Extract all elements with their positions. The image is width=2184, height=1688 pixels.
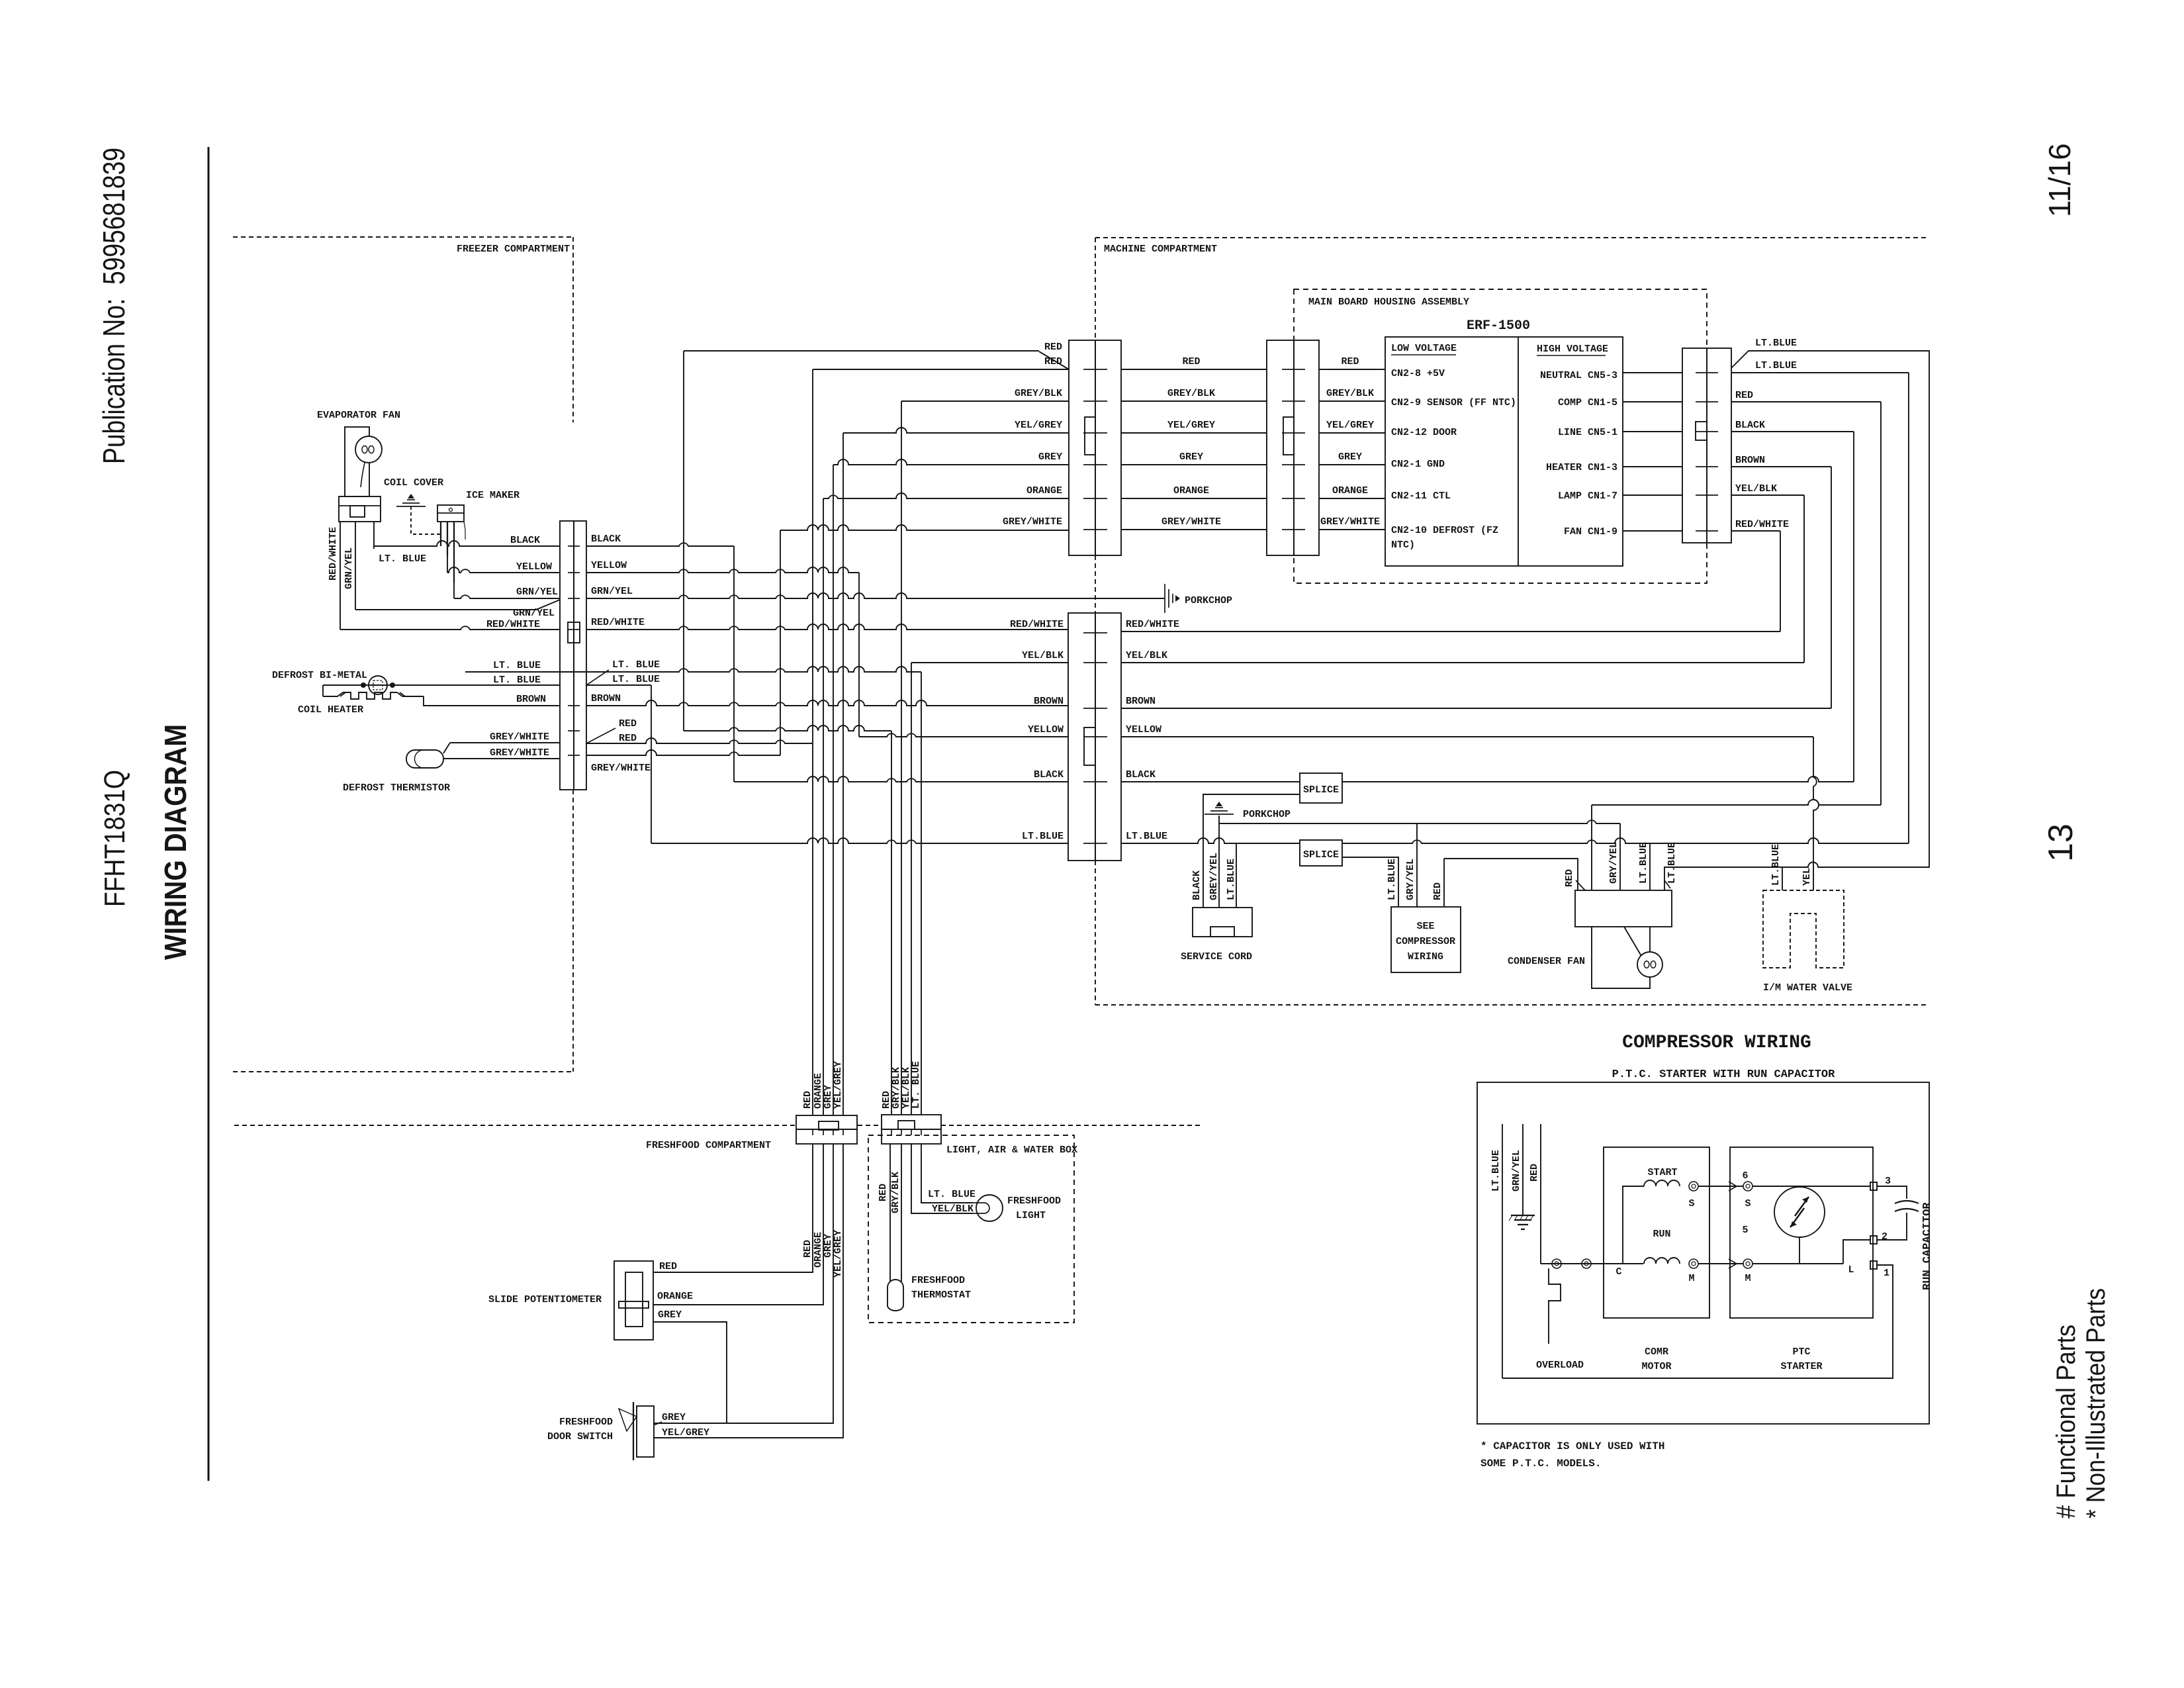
- label PTC STARTER: [1780, 1346, 1822, 1372]
- svg-text:SPLICE: SPLICE: [1303, 784, 1339, 796]
- wire ORANGE connector B to C: [1121, 498, 1267, 499]
- label GREY C-board: [1338, 451, 1362, 463]
- label GREY B-C: [1179, 451, 1203, 463]
- label LT.BLUE nest a: [1755, 338, 1797, 349]
- svg-text:OVERLOAD: OVERLOAD: [1536, 1360, 1584, 1371]
- compressor wiring outer box: [1477, 1082, 1929, 1424]
- svg-text:GRN/YEL: GRN/YEL: [516, 586, 558, 598]
- svg-text:RED/WHITE: RED/WHITE: [486, 619, 540, 630]
- label bundle2 GRY/BLK (rot): [891, 1067, 902, 1109]
- wire bi-metal left drop: [322, 685, 324, 696]
- subtitle PTC STARTER WITH RUN CAPACITOR: [1612, 1068, 1835, 1081]
- label S ptc: [1745, 1198, 1751, 1209]
- svg-text:LINE CN5-1: LINE CN5-1: [1558, 427, 1617, 438]
- wire GREY connector C to board: [1319, 464, 1385, 465]
- svg-text:FREEZER COMPARTMENT: FREEZER COMPARTMENT: [457, 244, 570, 255]
- wire LT. BLUE ice maker row: [465, 671, 560, 673]
- wire GRN/YEL row to porkchop: [586, 593, 1164, 598]
- connector F1 freshfood bundle-1 feed-through: [796, 1115, 857, 1144]
- wire RED thermostat drop: [889, 1144, 891, 1282]
- wire GRY/BLK bundle2 vertical: [901, 401, 902, 1115]
- svg-text:ORANGE: ORANGE: [1332, 485, 1368, 496]
- wire ORANGE connector C to board: [1319, 498, 1385, 499]
- label RED thermo (rot): [878, 1184, 889, 1201]
- svg-text:RED: RED: [1182, 356, 1200, 367]
- label YELLOW E right: [1126, 724, 1161, 735]
- svg-text:# Functional Parts: # Functional Parts: [2052, 1325, 2081, 1519]
- machine compartment top border: [1095, 237, 1929, 238]
- wire RED/WHITE fan to connector A: [340, 626, 560, 630]
- svg-text:1: 1: [1884, 1268, 1889, 1279]
- wire YEL/GREY connector B to C: [1121, 432, 1267, 434]
- svg-text:BROWN: BROWN: [1034, 696, 1064, 707]
- svg-text:YEL/BLK: YEL/BLK: [932, 1203, 974, 1215]
- label YELLOW E left: [1028, 724, 1064, 735]
- comr motor box: [1604, 1147, 1709, 1318]
- svg-text:LOW VOLTAGE: LOW VOLTAGE: [1391, 343, 1457, 354]
- wire LT.BLUE bundle2 vertical: [921, 672, 922, 1115]
- svg-text:3: 3: [1885, 1176, 1891, 1187]
- label FRESHFOOD DOOR SWITCH: [547, 1417, 613, 1442]
- freezer compartment top border: [233, 236, 573, 238]
- ptc pin 1 square: [1870, 1261, 1877, 1269]
- wire YEL/GREY below connector F1: [653, 1144, 843, 1438]
- label RUN: [1653, 1229, 1670, 1240]
- wire RED(2) connector A to trunk: [586, 738, 813, 743]
- machine compartment left wall seg2: [1095, 555, 1096, 613]
- label bundle1 RED (rot): [802, 1091, 813, 1109]
- label MAIN BOARD HOUSING ASSEMBLY: [1308, 297, 1469, 308]
- svg-text:RUN: RUN: [1653, 1229, 1670, 1240]
- label cw GRN/YEL (rot): [1511, 1150, 1522, 1192]
- wire BLACK splice1 to board drop: [1342, 776, 1854, 782]
- label GRN/YEL (rotated): [343, 547, 355, 589]
- svg-text:PTC: PTC: [1792, 1346, 1810, 1358]
- label EVAPORATOR FAN: [317, 410, 400, 421]
- svg-text:GREY/WHITE: GREY/WHITE: [1003, 516, 1062, 528]
- wire GRN/YEL a to connector A: [454, 583, 560, 598]
- svg-text:YEL/GREY: YEL/GREY: [1326, 420, 1374, 431]
- wire YEL/BLK nest: [1731, 495, 1804, 663]
- connector F2 freshfood bundle-2 feed-through: [882, 1115, 941, 1144]
- label seecomp LT.BLUE (rot): [1387, 859, 1398, 900]
- wire RED trunk below connector F1: [653, 1144, 813, 1272]
- svg-text:COIL COVER: COIL COVER: [384, 477, 443, 489]
- pin label COMP CN1-5: [1558, 397, 1617, 408]
- machine compartment left wall seg1: [1095, 238, 1096, 340]
- wire BLACK nest: [1731, 432, 1854, 782]
- svg-text:HIGH VOLTAGE: HIGH VOLTAGE: [1537, 344, 1608, 355]
- start terminal S: [1689, 1182, 1698, 1191]
- label pot RED: [659, 1261, 677, 1272]
- wire LT.BLUE connector E to splice2: [1121, 838, 1300, 843]
- label LT. BLUE fan wire: [379, 553, 426, 565]
- pin label CN2-8 +5V: [1391, 368, 1445, 379]
- label RED/WHITE E right: [1126, 619, 1179, 630]
- label fan RED (rot): [1564, 869, 1585, 890]
- svg-text:GREY: GREY: [1338, 451, 1362, 463]
- connector D board high-voltage feed-through: [1682, 348, 1731, 543]
- label seecomp RED (rot): [1432, 882, 1443, 900]
- svg-text:GREY: GREY: [658, 1309, 682, 1321]
- wire RED trunk vertical: [812, 369, 813, 1115]
- ptc pin 3 square: [1870, 1182, 1877, 1190]
- label GREY/WHITE left of B: [1003, 516, 1062, 528]
- wire start coil left drop: [1623, 1186, 1644, 1264]
- label YEL/BLK nest: [1735, 483, 1777, 494]
- label COIL HEATER: [298, 704, 363, 716]
- label ERF-1500: [1467, 318, 1530, 334]
- svg-text:L: L: [1848, 1264, 1854, 1276]
- coil cover ground symbol: [396, 494, 426, 506]
- ice maker module: [437, 505, 464, 522]
- label OVERLOAD: [1536, 1360, 1584, 1371]
- ptc starter box: [1730, 1147, 1873, 1318]
- svg-text:RED: RED: [1044, 342, 1062, 353]
- pin label CN2-11 CTL: [1391, 491, 1451, 502]
- wire GRY/BLK thermostat drop: [901, 1144, 902, 1282]
- label START: [1647, 1167, 1677, 1178]
- label fan LT.BLUE1 (rot): [1638, 842, 1649, 884]
- freezer compartment right wall lower: [572, 790, 574, 1072]
- label 6: [1742, 1170, 1748, 1182]
- label RED/WHITE right: [591, 617, 645, 628]
- wire LT.BLUE nest a: [1664, 351, 1929, 890]
- svg-text:RED/WHITE: RED/WHITE: [328, 527, 339, 581]
- svg-text:SOME P.T.C. MODELS.: SOME P.T.C. MODELS.: [1480, 1458, 1601, 1470]
- svg-text:GRN/YEL: GRN/YEL: [1511, 1150, 1522, 1192]
- label ORANGE B-C: [1173, 485, 1209, 496]
- label GREY/WHITE left b: [490, 747, 549, 759]
- svg-text:YEL: YEL: [1801, 868, 1813, 886]
- label BROWN right: [591, 693, 621, 704]
- label page 13 (rotated): [2042, 823, 2080, 862]
- svg-text:BLACK: BLACK: [591, 534, 621, 545]
- svg-text:BLACK: BLACK: [1126, 769, 1156, 780]
- svg-text:DEFROST BI-METAL: DEFROST BI-METAL: [272, 670, 367, 681]
- svg-text:CN2-10 DEFROST (FZ: CN2-10 DEFROST (FZ: [1391, 525, 1498, 536]
- wire YEL/BLK row to connector E: [911, 662, 1068, 663]
- svg-text:RED: RED: [619, 718, 637, 729]
- svg-text:BROWN: BROWN: [591, 693, 621, 704]
- svg-text:LT. BLUE: LT. BLUE: [911, 1061, 922, 1109]
- wire BROWN nest: [1731, 467, 1831, 708]
- wire fan RED drop: [1591, 805, 1592, 890]
- svg-text:GRY/YEL: GRY/YEL: [1608, 842, 1619, 884]
- svg-text:I/M WATER VALVE: I/M WATER VALVE: [1763, 982, 1852, 994]
- border rule left sidebar: [207, 147, 209, 1481]
- freezer compartment right wall upper: [572, 237, 574, 422]
- svg-text:YEL/GREY: YEL/GREY: [1167, 420, 1215, 431]
- wire RED(b) upper drop: [683, 351, 684, 731]
- coil cover ground stem: [411, 506, 441, 534]
- label BLACK nest: [1735, 420, 1765, 431]
- label I/M WATER VALVE: [1763, 982, 1852, 994]
- footnote capacitor line1: [1480, 1440, 1664, 1452]
- svg-text:START: START: [1647, 1167, 1677, 1178]
- svg-text:* Non-Illustrated Parts: * Non-Illustrated Parts: [2081, 1288, 2111, 1519]
- wire YEL/BLK light drop: [911, 1144, 973, 1213]
- coil heater element: [323, 692, 424, 699]
- label SPLICE 2: [1303, 849, 1339, 861]
- wire RED connector C to board: [1319, 369, 1385, 370]
- main board housing assembly dashed box: [1294, 289, 1707, 583]
- svg-text:* CAPACITOR IS ONLY USED WITH: * CAPACITOR IS ONLY USED WITH: [1480, 1440, 1664, 1452]
- label service BLACK (rot): [1191, 870, 1203, 900]
- wire LT.BLUE(2) row to connector E: [651, 838, 1068, 843]
- wire YEL/BLK connector E to nest: [1121, 662, 1804, 663]
- svg-text:P.T.C. STARTER WITH RUN CAPACI: P.T.C. STARTER WITH RUN CAPACITOR: [1612, 1068, 1835, 1081]
- svg-text:RUN CAPACITOR: RUN CAPACITOR: [1921, 1202, 1934, 1290]
- svg-text:ORANGE: ORANGE: [1173, 485, 1209, 496]
- label YEL/GREY C-board: [1326, 420, 1374, 431]
- wire BROWN row connector A to E: [586, 700, 1068, 706]
- label GREY/WHITE right: [591, 763, 651, 774]
- wire GREY elbow to connector B: [833, 459, 1069, 465]
- svg-text:LT.BLUE: LT.BLUE: [1666, 842, 1678, 884]
- header HIGH VOLTAGE: [1537, 344, 1608, 355]
- svg-text:LIGHT: LIGHT: [1016, 1210, 1046, 1221]
- svg-text:LT.BLUE: LT.BLUE: [1638, 842, 1649, 884]
- label GREY/WHITE left a: [490, 731, 549, 743]
- evaporator fan motor: [355, 436, 382, 487]
- svg-text:MAIN BOARD HOUSING ASSEMBLY: MAIN BOARD HOUSING ASSEMBLY: [1308, 297, 1469, 308]
- svg-text:COIL HEATER: COIL HEATER: [298, 704, 363, 716]
- label PORKCHOP 1: [1185, 595, 1232, 606]
- svg-text:5: 5: [1742, 1225, 1748, 1236]
- label pot GREY: [658, 1309, 682, 1321]
- svg-text:THERMOSTAT: THERMOSTAT: [911, 1289, 971, 1301]
- wire overload run line: [1541, 1259, 1643, 1268]
- label FRESHFOOD COMPARTMENT: [646, 1140, 771, 1151]
- wire fan LT.BLUE1 drop: [1649, 843, 1651, 890]
- header LOW VOLTAGE: [1391, 343, 1457, 355]
- wire valve YEL: [1813, 737, 1819, 890]
- label RED/WHITE E left: [1010, 619, 1064, 630]
- wire RED bundle2 vertical: [891, 731, 892, 1115]
- wire RED/WHITE evaporator fan drop: [340, 522, 341, 630]
- svg-text:GREY/YEL: GREY/YEL: [1208, 853, 1220, 900]
- svg-text:CONDENSER FAN: CONDENSER FAN: [1508, 956, 1585, 967]
- svg-text:GRY/YEL: GRY/YEL: [1405, 859, 1416, 900]
- wire GREY below connector F1: [653, 1144, 833, 1423]
- label GREY/BLK left of B: [1015, 388, 1062, 399]
- splice 1 box: [1300, 773, 1342, 803]
- label RED/WHITE (rotated): [328, 527, 339, 581]
- svg-text:LT.BLUE: LT.BLUE: [1755, 338, 1797, 349]
- label LT. BLUE left b: [493, 675, 541, 686]
- svg-text:LT. BLUE: LT. BLUE: [493, 660, 541, 671]
- label bundle2 LT. BLUE (rot): [911, 1061, 922, 1109]
- connector B machine wall feed-through: [1069, 340, 1121, 555]
- wire GRN/YEL b fan to connector A: [355, 600, 560, 610]
- wire ORANGE below connector F1: [653, 1144, 823, 1305]
- label LT. BLUE right a: [612, 659, 660, 671]
- svg-text:LAMP CN1-7: LAMP CN1-7: [1558, 491, 1617, 502]
- svg-text:YEL/GREY: YEL/GREY: [1015, 420, 1062, 431]
- svg-text:BLACK: BLACK: [1191, 870, 1203, 900]
- svg-text:LT.BLUE: LT.BLUE: [1226, 859, 1237, 900]
- svg-text:BLACK: BLACK: [510, 535, 540, 546]
- footnote capacitor line2: [1480, 1458, 1601, 1470]
- svg-text:FFHT1831Q: FFHT1831Q: [99, 770, 131, 907]
- label valve YEL (rot): [1801, 868, 1813, 886]
- svg-text:LT. BLUE: LT. BLUE: [612, 674, 660, 685]
- svg-text:LT. BLUE: LT. BLUE: [379, 553, 426, 565]
- label RED right a: [619, 718, 637, 729]
- label COIL COVER: [384, 477, 443, 489]
- label bundle1 ORANGE below (rot): [813, 1232, 824, 1268]
- svg-text:LT.BLUE: LT.BLUE: [1755, 360, 1797, 371]
- wire M to PTC: [1698, 1259, 1743, 1268]
- wire RED/WHITE connector E to nest: [1121, 631, 1780, 632]
- wire YEL/GREY trunk vertical: [842, 433, 844, 1115]
- label RED/WHITE nest: [1735, 519, 1789, 530]
- label LT.BLUE E left: [1022, 831, 1064, 842]
- label LT. BLUE right b: [586, 670, 660, 685]
- svg-text:GREY/WHITE: GREY/WHITE: [1320, 516, 1380, 528]
- label YEL/BLK E left: [1022, 650, 1064, 661]
- label YEL/GREY B-C: [1167, 420, 1215, 431]
- label PORKCHOP 2: [1243, 809, 1291, 820]
- pin label CN2-12 DOOR: [1391, 427, 1457, 438]
- wire seecomp RED: [1443, 859, 1445, 907]
- wire valve LT.BLUE: [1782, 867, 1783, 890]
- svg-text:NEUTRAL CN5-3: NEUTRAL CN5-3: [1540, 370, 1617, 381]
- svg-text:FAN CN1-9: FAN CN1-9: [1564, 526, 1617, 538]
- porkchop ground 1: [1165, 584, 1180, 613]
- label BLACK left: [510, 535, 540, 546]
- label ORANGE C-board: [1332, 485, 1368, 496]
- machine compartment bottom border: [1095, 1004, 1929, 1006]
- wire RED seecomp link: [1444, 859, 1578, 890]
- label publication number (rotated): [97, 148, 131, 464]
- label GREY/WHITE C-board: [1320, 516, 1380, 528]
- svg-text:S: S: [1745, 1198, 1751, 1209]
- svg-text:FRESHFOOD: FRESHFOOD: [559, 1417, 613, 1428]
- wire RED(b) row: [684, 726, 891, 731]
- pin label NEUTRAL CN5-3: [1540, 370, 1617, 381]
- svg-text:RED: RED: [878, 1184, 889, 1201]
- wire fan GRY/YEL drop: [1619, 823, 1621, 890]
- label SEE COMPRESSOR WIRING: [1396, 921, 1455, 962]
- label LIGHT AIR WATER BOX: [946, 1145, 1077, 1156]
- svg-text:LT. BLUE: LT. BLUE: [928, 1189, 976, 1200]
- label date 11/16 (rotated): [2042, 143, 2077, 217]
- wire BLACK drop: [733, 546, 735, 782]
- ptc pin 2 square: [1870, 1236, 1877, 1244]
- label LT.BLUE E right: [1126, 831, 1167, 842]
- label YELLOW left: [516, 561, 552, 573]
- svg-text:SLIDE POTENTIOMETER: SLIDE POTENTIOMETER: [488, 1294, 602, 1305]
- wire ptc circle stem bottom: [1799, 1237, 1800, 1264]
- svg-text:GREY/WHITE: GREY/WHITE: [490, 731, 549, 743]
- wire cw RED feed: [1540, 1124, 1541, 1264]
- wire YELLOW row to connector E: [859, 733, 1068, 737]
- wire 5 to L: [1752, 1263, 1843, 1264]
- svg-text:YELLOW: YELLOW: [1028, 724, 1064, 735]
- svg-text:RED: RED: [1044, 356, 1062, 367]
- porkchop ground 2: [1205, 802, 1234, 814]
- wire YEL/GREY connector C to board: [1319, 432, 1385, 434]
- wire LT.BLUE(2) connector A to drop: [586, 684, 651, 686]
- label non-illustrated parts note (rotated): [2081, 1288, 2111, 1519]
- wire GREY/WHITE riser: [780, 530, 781, 755]
- pin label HEATER CN1-3: [1546, 462, 1617, 473]
- wire RED bus: [1592, 800, 1881, 805]
- svg-text:EVAPORATOR FAN: EVAPORATOR FAN: [317, 410, 400, 421]
- freshfood compartment top border seg1: [234, 1125, 796, 1126]
- defrost bi-metal thermostat: [361, 676, 395, 694]
- freshfood compartment top border seg3: [941, 1125, 1203, 1126]
- pin label CN2-10 DEFROST (FZ NTC): [1391, 525, 1498, 551]
- run terminal M: [1689, 1259, 1698, 1268]
- cw ground symbol: [1509, 1215, 1535, 1229]
- run capacitor symbol: [1877, 1186, 1919, 1240]
- freshfood compartment top border seg2: [858, 1125, 882, 1126]
- svg-text:COMPRESSOR: COMPRESSOR: [1396, 936, 1455, 947]
- label RED nest: [1735, 390, 1753, 401]
- label BROWN E left: [1034, 696, 1064, 707]
- label MACHINE COMPARTMENT: [1104, 244, 1217, 255]
- label service LT.BLUE (rot): [1226, 859, 1237, 900]
- wire GREY pot riser: [653, 1322, 727, 1423]
- wire S to PTC: [1698, 1182, 1743, 1191]
- svg-text:GREY/WHITE: GREY/WHITE: [490, 747, 549, 759]
- label CONDENSER FAN: [1508, 956, 1585, 967]
- label bundle2 RED (rot): [881, 1091, 892, 1109]
- svg-text:COMP CN1-5: COMP CN1-5: [1558, 397, 1617, 408]
- wire RED/WHITE row connector A to E: [586, 624, 1068, 630]
- label service GREY/YEL (rot): [1208, 853, 1220, 900]
- label BROWN E right: [1126, 696, 1156, 707]
- evaporator fan housing: [345, 427, 369, 496]
- machine compartment left wall seg3: [1095, 861, 1096, 1005]
- wire YELLOW connector E to valve: [1121, 736, 1813, 737]
- svg-text:BROWN: BROWN: [1735, 455, 1765, 466]
- wire BLACK row to connector E: [734, 776, 1068, 782]
- svg-text:CN2-8 +5V: CN2-8 +5V: [1391, 368, 1445, 379]
- svg-text:RED/WHITE: RED/WHITE: [1010, 619, 1064, 630]
- wire LT.BLUE(2) drop: [651, 685, 652, 843]
- svg-text:GREY/WHITE: GREY/WHITE: [1161, 516, 1221, 528]
- svg-text:RED: RED: [802, 1240, 813, 1258]
- wire BROWN coil heater to connector A: [424, 696, 560, 706]
- wire seecomp GRY/YEL: [1416, 823, 1418, 907]
- freshfood door switch: [619, 1402, 654, 1460]
- wire YELLOW ice maker to connector A: [447, 556, 560, 573]
- label RUN CAPACITOR (rot): [1921, 1202, 1934, 1290]
- label 1: [1884, 1268, 1889, 1279]
- wire YEL/GREY elbow to connector B: [843, 428, 1069, 433]
- svg-text:CN2-1 GND: CN2-1 GND: [1391, 459, 1445, 470]
- wire fan motor diagonal lead: [1624, 927, 1641, 956]
- svg-text:RED: RED: [619, 733, 637, 744]
- ice maker pin leads: [441, 522, 465, 583]
- label GRN/YEL left b: [513, 608, 555, 619]
- i/m water valve body: [1763, 890, 1844, 968]
- label GREY/BLK B-C: [1167, 388, 1215, 399]
- wire GRY/YEL ground bus: [1219, 820, 1620, 823]
- svg-text:PORKCHOP: PORKCHOP: [1185, 595, 1232, 606]
- svg-text:WIRING DIAGRAM: WIRING DIAGRAM: [158, 724, 193, 960]
- wire L step: [1843, 1240, 1870, 1264]
- wire LT. BLUE bi-metal row: [323, 684, 560, 686]
- svg-text:LT.BLUE: LT.BLUE: [1387, 859, 1398, 900]
- ptc resistor circle: [1774, 1187, 1825, 1237]
- label bundle1 YEL/GREY (rot): [833, 1061, 844, 1109]
- svg-text:MACHINE COMPARTMENT: MACHINE COMPARTMENT: [1104, 244, 1217, 255]
